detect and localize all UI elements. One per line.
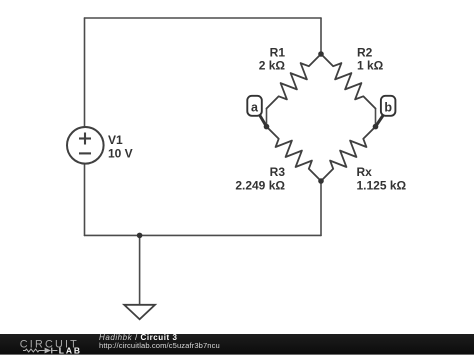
wire bridge bottom vertical [320, 181, 322, 235]
svg-text:LAB: LAB [59, 346, 82, 355]
svg-text:R3: R3 [270, 165, 286, 179]
wire left vertical upper (top rail to V1 plus) [84, 18, 86, 127]
svg-text:1.125 kΩ: 1.125 kΩ [357, 179, 407, 193]
resistor R1 [267, 54, 322, 109]
resistor Rx [321, 127, 376, 181]
resistor R2 [321, 54, 376, 109]
svg-text:V1: V1 [108, 133, 123, 147]
wire top horizontal [85, 17, 322, 19]
svg-text:a: a [251, 100, 259, 114]
node a flag [247, 96, 266, 127]
node b flag [376, 96, 396, 127]
svg-text:2.249 kΩ: 2.249 kΩ [235, 179, 285, 193]
voltage source V1 [67, 127, 104, 164]
svg-text:R1: R1 [270, 46, 286, 60]
svg-text:b: b [384, 100, 392, 114]
wire node a stub [266, 109, 268, 127]
wire top-right vertical into bridge [320, 18, 322, 54]
footer title text [99, 333, 178, 342]
footer bar [0, 334, 474, 355]
junction node top [318, 51, 324, 57]
junction node b [373, 124, 379, 130]
footer url text [99, 341, 220, 350]
resistor R3 [267, 127, 322, 181]
CircuitLab logo [0, 334, 95, 355]
ground [124, 305, 155, 320]
svg-text:2 kΩ: 2 kΩ [259, 59, 286, 73]
junction node a [264, 124, 270, 130]
wire ground stub [139, 235, 141, 304]
wire bottom horizontal [85, 234, 322, 236]
svg-text:R2: R2 [357, 46, 373, 60]
junction ground rail [137, 233, 143, 239]
junction node bottom [318, 178, 324, 184]
wire left vertical lower (V1 minus to bottom rail) [84, 164, 86, 236]
svg-text:10 V: 10 V [108, 146, 133, 160]
svg-text:Rx: Rx [357, 165, 373, 179]
wire node b stub [375, 109, 377, 127]
svg-text:1 kΩ: 1 kΩ [357, 59, 384, 73]
